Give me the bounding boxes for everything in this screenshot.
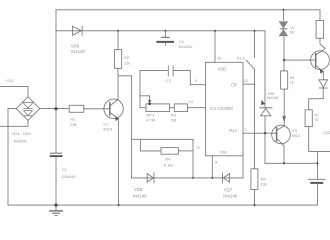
svg-text:12: 12	[244, 79, 248, 83]
svg-text:9012: 9012	[292, 134, 300, 138]
svg-text:R2: R2	[124, 56, 129, 60]
svg-text:16: 16	[217, 57, 221, 61]
svg-text:3V: 3V	[290, 30, 295, 34]
svg-text:IC1 CD4060: IC1 CD4060	[210, 106, 234, 111]
svg-text:LED: LED	[323, 131, 330, 135]
svg-text:VD7: VD7	[224, 187, 233, 192]
svg-text:10: 10	[189, 100, 193, 104]
svg-text:IN4148: IN4148	[133, 193, 147, 198]
svg-text:VD1 - VD4: VD1 - VD4	[12, 131, 32, 136]
svg-text:1M: 1M	[171, 118, 177, 123]
svg-text:IN4148: IN4148	[267, 96, 278, 100]
svg-text:23k: 23k	[70, 122, 76, 127]
svg-text:3: 3	[244, 127, 246, 131]
svg-text:IN4148: IN4148	[223, 193, 237, 198]
svg-text:O14: O14	[229, 128, 237, 133]
svg-text:CR: CR	[231, 82, 237, 87]
svg-text:10k: 10k	[261, 183, 267, 187]
svg-text:4.7M: 4.7M	[146, 118, 155, 123]
svg-text:12k: 12k	[124, 61, 130, 65]
svg-text:1k: 1k	[290, 80, 294, 84]
svg-text:VD6: VD6	[71, 43, 80, 48]
svg-text:VD5: VD5	[134, 187, 143, 192]
svg-text:R6: R6	[261, 178, 266, 182]
svg-text:6.1M: 6.1M	[164, 162, 173, 167]
svg-text:S1 2: S1 2	[237, 56, 245, 60]
svg-text:C1: C1	[62, 167, 68, 172]
svg-text:R4: R4	[165, 156, 171, 161]
svg-text:Vss: Vss	[220, 149, 227, 154]
svg-text:IN4001: IN4001	[14, 138, 28, 143]
svg-text:~12V: ~12V	[5, 78, 15, 83]
svg-text:C3: C3	[166, 79, 171, 83]
svg-text:V3: V3	[292, 129, 297, 133]
svg-text:9013: 9013	[103, 127, 113, 132]
svg-text:11: 11	[196, 146, 200, 150]
svg-text:220u/16V: 220u/16V	[61, 175, 76, 179]
svg-text:VDD: VDD	[218, 67, 227, 72]
svg-text:V2: V2	[290, 26, 295, 30]
svg-text:8: 8	[215, 160, 217, 164]
svg-text:75: 75	[314, 118, 318, 122]
svg-text:C2: C2	[179, 40, 184, 44]
svg-text:IN4148: IN4148	[71, 49, 85, 54]
svg-text:100u/16V: 100u/16V	[178, 45, 193, 49]
svg-text:9: 9	[195, 79, 197, 83]
